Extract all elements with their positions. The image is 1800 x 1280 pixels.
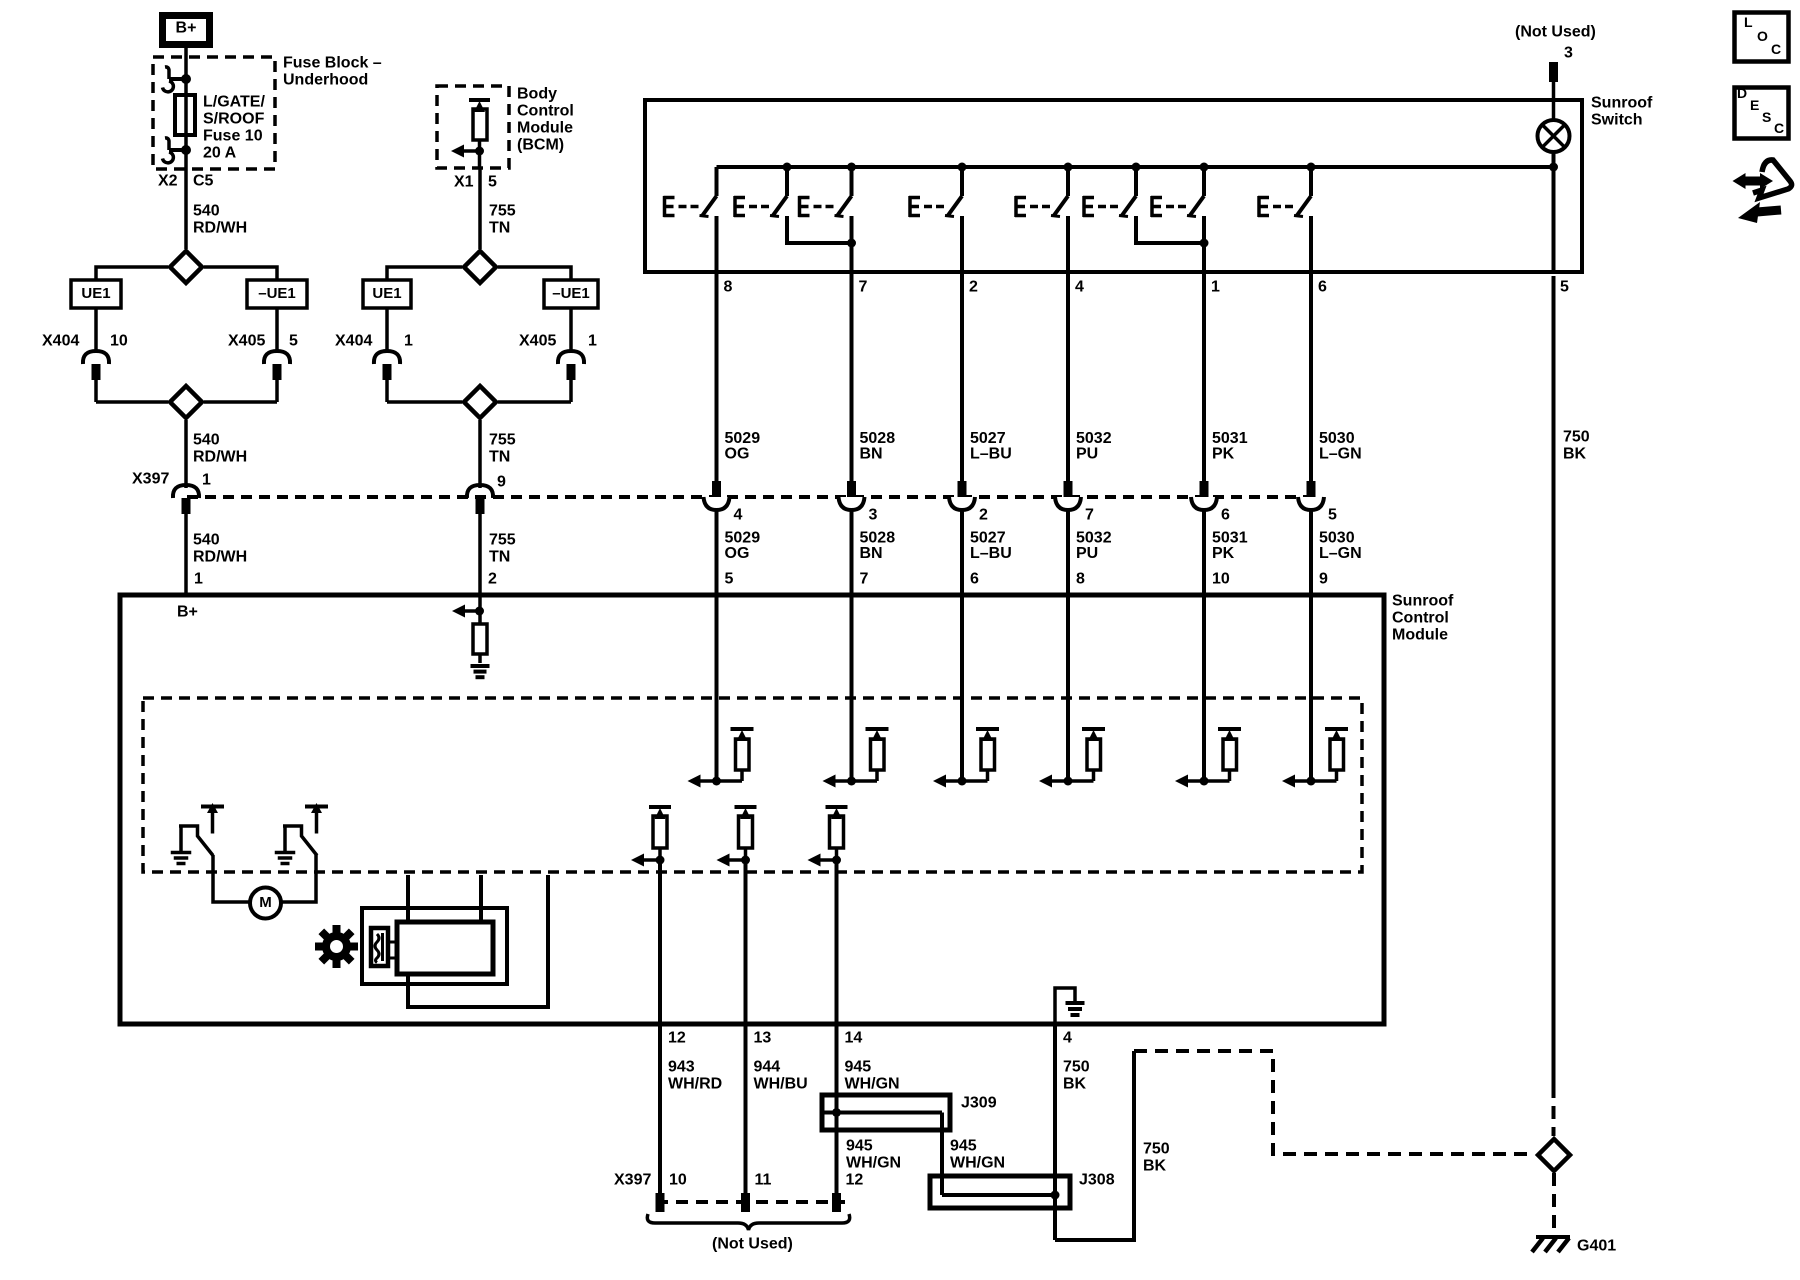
connector X397 pin 5 xyxy=(1298,497,1324,510)
svg-text:X405: X405 xyxy=(519,333,556,350)
pullup resistor 5028 xyxy=(866,727,889,731)
BCM fuse element xyxy=(478,109,482,111)
svg-text:O: O xyxy=(1757,28,1768,44)
svg-text:Fuse Block –: Fuse Block – xyxy=(283,55,382,72)
svg-text:6: 6 xyxy=(1221,507,1230,524)
svg-text:(Not Used): (Not Used) xyxy=(712,1236,793,1253)
svg-text:B+: B+ xyxy=(177,604,198,621)
svg-text:5: 5 xyxy=(488,174,497,191)
motor brush leads xyxy=(388,941,397,944)
pin2 ground wire xyxy=(478,654,482,663)
svg-text:5027: 5027 xyxy=(970,430,1006,447)
svg-text:L/GATE/: L/GATE/ xyxy=(203,94,265,111)
wire 750 BK lower xyxy=(1053,1024,1057,1240)
svg-text:BK: BK xyxy=(1563,446,1587,463)
wire to -UE1 xyxy=(204,267,277,280)
wire 750 BK right xyxy=(1552,276,1556,1085)
splice diamond G401 wire xyxy=(1538,1139,1570,1171)
lamp wire to bus xyxy=(1552,152,1556,272)
svg-text:5028: 5028 xyxy=(860,430,896,447)
wire 5030 upper xyxy=(1309,272,1313,481)
switch wire down xyxy=(1066,216,1070,272)
svg-text:BN: BN xyxy=(860,545,883,562)
switch contact 4 xyxy=(958,163,967,172)
motor assembly outer box xyxy=(362,908,507,984)
svg-text:X1: X1 xyxy=(454,174,474,191)
svg-text:4: 4 xyxy=(1063,1030,1072,1047)
svg-text:755: 755 xyxy=(489,532,516,549)
svg-text:14: 14 xyxy=(845,1030,863,1047)
svg-text:OG: OG xyxy=(725,446,750,463)
limit switch 2 arrow xyxy=(305,805,328,809)
svg-text:12: 12 xyxy=(846,1172,864,1189)
svg-text:5: 5 xyxy=(289,333,298,350)
switch wire down xyxy=(1202,216,1206,272)
svg-text:6: 6 xyxy=(1318,279,1327,296)
svg-text:X2: X2 xyxy=(158,173,178,190)
svg-text:UE1: UE1 xyxy=(81,285,110,302)
wire 5029 lower xyxy=(715,510,719,595)
wire 5027 upper xyxy=(960,272,964,481)
svg-text:X397: X397 xyxy=(614,1172,651,1189)
wire to UE1 xyxy=(96,267,168,280)
svg-text:C5: C5 xyxy=(193,173,214,190)
svg-text:10: 10 xyxy=(110,333,128,350)
svg-text:D: D xyxy=(1737,85,1747,101)
switch contact 1 xyxy=(715,167,719,196)
limit switch 2 ground xyxy=(283,826,287,852)
svg-text:945: 945 xyxy=(950,1138,977,1155)
motor brush element xyxy=(371,928,388,966)
wire 5031 lower xyxy=(1202,510,1206,595)
wire 750 BK dashed xyxy=(1552,1085,1556,1136)
wire 945 inside xyxy=(835,860,839,1024)
svg-text:944: 944 xyxy=(754,1059,781,1076)
svg-text:Module: Module xyxy=(517,120,573,137)
pullup resistor 5027 xyxy=(976,727,999,731)
connector X397 pin 4 xyxy=(704,497,730,510)
output resistor 945 xyxy=(826,805,848,809)
X397 pin 12 xyxy=(832,1193,841,1212)
svg-text:BN: BN xyxy=(860,446,883,463)
wire UE1b down xyxy=(385,308,389,351)
fuse box -UE1 a xyxy=(247,280,307,308)
svg-text:UE1: UE1 xyxy=(372,285,401,302)
svg-text:L–GN: L–GN xyxy=(1319,545,1362,562)
fuse box UE1 a xyxy=(71,280,121,308)
connector X397 pin 6 xyxy=(1191,497,1217,510)
X397 bottom dashed line xyxy=(656,1200,845,1204)
navigation arrows icon xyxy=(1743,177,1763,186)
output resistor 943 xyxy=(649,805,671,809)
switch contact 8 xyxy=(1307,163,1316,172)
svg-text:L–BU: L–BU xyxy=(970,545,1012,562)
connector X397 pin 3 xyxy=(839,497,865,510)
dashed 750 BK path xyxy=(1134,1051,1534,1154)
switch contact 5 xyxy=(1064,163,1073,172)
svg-text:J309: J309 xyxy=(961,1095,997,1112)
svg-text:750: 750 xyxy=(1143,1141,1170,1158)
svg-text:Control: Control xyxy=(1392,610,1449,627)
output resistor 944 xyxy=(735,805,757,809)
svg-text:E: E xyxy=(1750,97,1759,113)
BCM dashed box xyxy=(437,86,509,168)
svg-text:WH/BU: WH/BU xyxy=(754,1076,808,1093)
wire 755 lower xyxy=(478,513,482,595)
wire 755 upper xyxy=(478,169,482,249)
svg-text:4: 4 xyxy=(734,507,743,524)
svg-text:WH/GN: WH/GN xyxy=(845,1076,900,1093)
svg-text:J308: J308 xyxy=(1079,1172,1115,1189)
svg-text:Module: Module xyxy=(1392,627,1448,644)
pin 3 terminal xyxy=(1549,62,1558,82)
X397 dashed connector line xyxy=(187,495,1320,499)
svg-text:5032: 5032 xyxy=(1076,530,1112,547)
wire 540 lower xyxy=(184,513,188,595)
svg-text:5029: 5029 xyxy=(725,530,761,547)
svg-text:755: 755 xyxy=(489,432,516,449)
splice diamond S3 xyxy=(464,251,496,283)
pin4 ground xyxy=(1066,1001,1085,1005)
pin2 resistor xyxy=(473,624,487,654)
switch wire down xyxy=(850,216,854,272)
svg-text:S/ROOF: S/ROOF xyxy=(203,111,265,128)
svg-text:1: 1 xyxy=(404,333,413,350)
svg-text:9: 9 xyxy=(1319,571,1328,588)
svg-text:S: S xyxy=(1762,109,1771,125)
input wire 5032 inside xyxy=(1066,595,1070,781)
limit switch 1 arrow xyxy=(201,805,224,809)
wire below X404 b xyxy=(385,379,389,402)
svg-text:12: 12 xyxy=(668,1030,686,1047)
svg-text:755: 755 xyxy=(489,203,516,220)
svg-text:PU: PU xyxy=(1076,446,1098,463)
svg-text:TN: TN xyxy=(489,549,510,566)
svg-text:–UE1: –UE1 xyxy=(552,285,590,302)
svg-text:945: 945 xyxy=(846,1138,873,1155)
sunroof illumination lamp xyxy=(1538,120,1570,152)
svg-text:X405: X405 xyxy=(228,333,265,350)
svg-text:RD/WH: RD/WH xyxy=(193,449,247,466)
svg-text:5030: 5030 xyxy=(1319,530,1355,547)
svg-text:PK: PK xyxy=(1212,446,1235,463)
switch contact 6 xyxy=(1132,163,1141,172)
svg-text:5030: 5030 xyxy=(1319,430,1355,447)
wire 943 inside xyxy=(658,860,662,1024)
svg-text:5029: 5029 xyxy=(725,430,761,447)
svg-text:Sunroof: Sunroof xyxy=(1591,95,1653,112)
limit switch 1 xyxy=(179,826,213,856)
svg-text:5028: 5028 xyxy=(860,530,896,547)
wire 755 mid xyxy=(478,420,482,488)
pullup resistor 5030 xyxy=(1325,727,1348,731)
svg-text:X404: X404 xyxy=(335,333,372,350)
pullup resistor 5031 xyxy=(1218,727,1241,731)
X397 pin 10 xyxy=(656,1193,665,1212)
sunroof control module box xyxy=(120,595,1384,1024)
LOC legend box xyxy=(1735,13,1789,62)
svg-text:X404: X404 xyxy=(42,333,79,350)
svg-text:Fuse 10: Fuse 10 xyxy=(203,128,263,145)
svg-text:RD/WH: RD/WH xyxy=(193,549,247,566)
svg-text:13: 13 xyxy=(754,1030,772,1047)
svg-text:1: 1 xyxy=(194,571,203,588)
svg-text:7: 7 xyxy=(1085,507,1094,524)
svg-text:5031: 5031 xyxy=(1212,530,1248,547)
svg-text:4: 4 xyxy=(1075,279,1084,296)
svg-text:WH/RD: WH/RD xyxy=(668,1076,722,1093)
svg-text:750: 750 xyxy=(1063,1059,1090,1076)
input wire 5027 inside xyxy=(960,595,964,781)
svg-text:WH/GN: WH/GN xyxy=(950,1155,1005,1172)
svg-text:Body: Body xyxy=(517,86,557,103)
svg-text:PU: PU xyxy=(1076,545,1098,562)
svg-text:8: 8 xyxy=(724,279,733,296)
motor M xyxy=(213,855,250,902)
svg-text:G401: G401 xyxy=(1577,1238,1616,1255)
wire 5029 upper xyxy=(715,272,719,481)
fuse box UE1 b xyxy=(363,280,411,308)
svg-text:943: 943 xyxy=(668,1059,695,1076)
wire 5032 lower xyxy=(1066,510,1070,595)
svg-text:750: 750 xyxy=(1563,429,1590,446)
wire 943 xyxy=(658,1024,662,1195)
wire below X404 a xyxy=(94,379,98,402)
wire 750 BK loop xyxy=(1055,1051,1134,1240)
pin2 wire xyxy=(478,595,482,624)
svg-text:Switch: Switch xyxy=(1591,112,1643,129)
switch loop 6-7 xyxy=(1136,216,1204,243)
switch contact 2 xyxy=(783,163,792,172)
input wire 5029 inside xyxy=(715,595,719,781)
svg-text:540: 540 xyxy=(193,532,220,549)
wire to -UE1 b xyxy=(498,267,571,280)
svg-text:6: 6 xyxy=(970,571,979,588)
wire 944 inside xyxy=(744,860,748,1024)
switch wire down xyxy=(715,216,719,272)
svg-text:2: 2 xyxy=(488,571,497,588)
wire below X405 a xyxy=(275,308,279,351)
splice diamond S4 xyxy=(387,400,462,404)
motor wire 1 xyxy=(406,875,410,922)
BCM internal supply xyxy=(469,98,490,102)
svg-text:OG: OG xyxy=(725,545,750,562)
svg-text:10: 10 xyxy=(1212,571,1230,588)
input wire 5030 inside xyxy=(1309,595,1313,781)
wire 5032 upper xyxy=(1066,272,1070,481)
DESC legend box xyxy=(1735,88,1789,139)
svg-text:2: 2 xyxy=(979,507,988,524)
wire B+ to fuse block xyxy=(184,48,188,135)
switch bus wire xyxy=(717,165,1554,169)
switch wire down xyxy=(960,216,964,272)
pin2 internal arrow xyxy=(464,609,480,613)
wire 540 upper xyxy=(184,169,188,249)
svg-text:5: 5 xyxy=(725,571,734,588)
svg-text:1: 1 xyxy=(588,333,597,350)
input wire 5031 inside xyxy=(1202,595,1206,781)
svg-text:7: 7 xyxy=(859,279,868,296)
clip terminal lower xyxy=(169,148,186,152)
wire 5031 upper xyxy=(1202,272,1206,481)
switch wire down xyxy=(1309,216,1313,272)
dashed wire below diamond xyxy=(1552,1173,1556,1232)
svg-text:Underhood: Underhood xyxy=(283,72,368,89)
wire 944 xyxy=(744,1024,748,1195)
svg-text:1: 1 xyxy=(202,472,211,489)
svg-text:540: 540 xyxy=(193,432,220,449)
wire 945 splice down xyxy=(940,1113,944,1196)
pullup resistor 5032 xyxy=(1082,727,1105,731)
svg-text:L–BU: L–BU xyxy=(970,446,1012,463)
limit switch 2 xyxy=(283,826,317,856)
svg-text:C: C xyxy=(1771,41,1781,57)
ground G401 xyxy=(1536,1235,1570,1239)
svg-text:10: 10 xyxy=(669,1172,687,1189)
svg-text:RD/WH: RD/WH xyxy=(193,220,247,237)
BCM wire to arrow xyxy=(478,140,482,169)
svg-text:PK: PK xyxy=(1212,545,1235,562)
svg-text:3: 3 xyxy=(869,507,878,524)
svg-text:TN: TN xyxy=(489,449,510,466)
svg-text:X397: X397 xyxy=(132,471,169,488)
svg-text:5: 5 xyxy=(1560,279,1569,296)
module inner dashed box xyxy=(143,698,1362,872)
pullup resistor 5029 xyxy=(731,727,754,731)
motor assembly body xyxy=(397,922,493,974)
fuse F10 L/GATE S/ROOF xyxy=(175,95,195,135)
gear icon xyxy=(315,925,358,968)
wire UE1a down xyxy=(94,308,98,351)
fuse box -UE1 b xyxy=(544,280,598,308)
wire through fuse xyxy=(184,135,188,169)
svg-text:M: M xyxy=(259,894,272,911)
svg-text:B+: B+ xyxy=(176,20,197,37)
splice diamond S1 xyxy=(170,251,202,283)
svg-text:L–GN: L–GN xyxy=(1319,446,1362,463)
input wire 5028 inside xyxy=(850,595,854,781)
BCM left arrow xyxy=(464,149,480,153)
limit switch 1 ground xyxy=(179,826,183,852)
splice J309 xyxy=(822,1095,950,1130)
svg-text:C: C xyxy=(1774,120,1784,136)
power symbol B+ box xyxy=(163,16,210,45)
svg-text:WH/GN: WH/GN xyxy=(846,1155,901,1172)
sunroof switch box xyxy=(645,100,1582,272)
wire below X405 b xyxy=(569,308,573,351)
svg-text:1: 1 xyxy=(1211,279,1220,296)
fuse block dashed box xyxy=(153,57,275,169)
connector X397 pin 2 xyxy=(949,497,975,510)
svg-text:5031: 5031 xyxy=(1212,430,1248,447)
svg-text:3: 3 xyxy=(1564,45,1573,62)
svg-text:Control: Control xyxy=(517,103,574,120)
svg-text:945: 945 xyxy=(845,1059,872,1076)
wire 5030 lower xyxy=(1309,510,1313,595)
svg-text:8: 8 xyxy=(1076,571,1085,588)
not used brace xyxy=(647,1214,849,1230)
svg-text:L: L xyxy=(1744,14,1753,30)
svg-text:7: 7 xyxy=(860,571,869,588)
svg-text:540: 540 xyxy=(193,203,220,220)
svg-text:11: 11 xyxy=(755,1172,772,1189)
svg-text:(BCM): (BCM) xyxy=(517,137,564,154)
wire 5027 lower xyxy=(960,510,964,595)
switch loop 2-3 xyxy=(787,216,852,243)
wire 945 upper xyxy=(835,1024,839,1195)
pin2 ground xyxy=(471,664,490,668)
wire to UE1 b xyxy=(387,267,462,280)
switch contact 3 xyxy=(847,163,856,172)
motor wire 2 xyxy=(479,875,483,922)
connector X397 pin 7 xyxy=(1055,497,1081,510)
svg-text:5: 5 xyxy=(1328,507,1337,524)
svg-text:(Not Used): (Not Used) xyxy=(1515,24,1596,41)
svg-text:2: 2 xyxy=(969,279,978,296)
svg-text:9: 9 xyxy=(497,474,506,491)
svg-text:20 A: 20 A xyxy=(203,145,237,162)
svg-text:5027: 5027 xyxy=(970,530,1006,547)
svg-text:Sunroof: Sunroof xyxy=(1392,593,1454,610)
svg-text:BK: BK xyxy=(1143,1158,1167,1175)
svg-text:–UE1: –UE1 xyxy=(258,285,296,302)
wire 5028 lower xyxy=(850,510,854,595)
switch contact 7 xyxy=(1200,163,1209,172)
wire 540 mid xyxy=(184,420,188,488)
splice diamond S2 xyxy=(96,400,168,404)
pin4 ground wire xyxy=(1055,988,1075,1024)
motor loop wire xyxy=(408,875,548,1007)
splice J308 xyxy=(930,1176,1070,1208)
svg-text:5032: 5032 xyxy=(1076,430,1112,447)
svg-text:BK: BK xyxy=(1063,1076,1087,1093)
clip terminal upper xyxy=(169,77,186,81)
X397 pin 11 xyxy=(741,1193,750,1212)
wire 5028 upper xyxy=(850,272,854,481)
svg-text:TN: TN xyxy=(489,220,510,237)
